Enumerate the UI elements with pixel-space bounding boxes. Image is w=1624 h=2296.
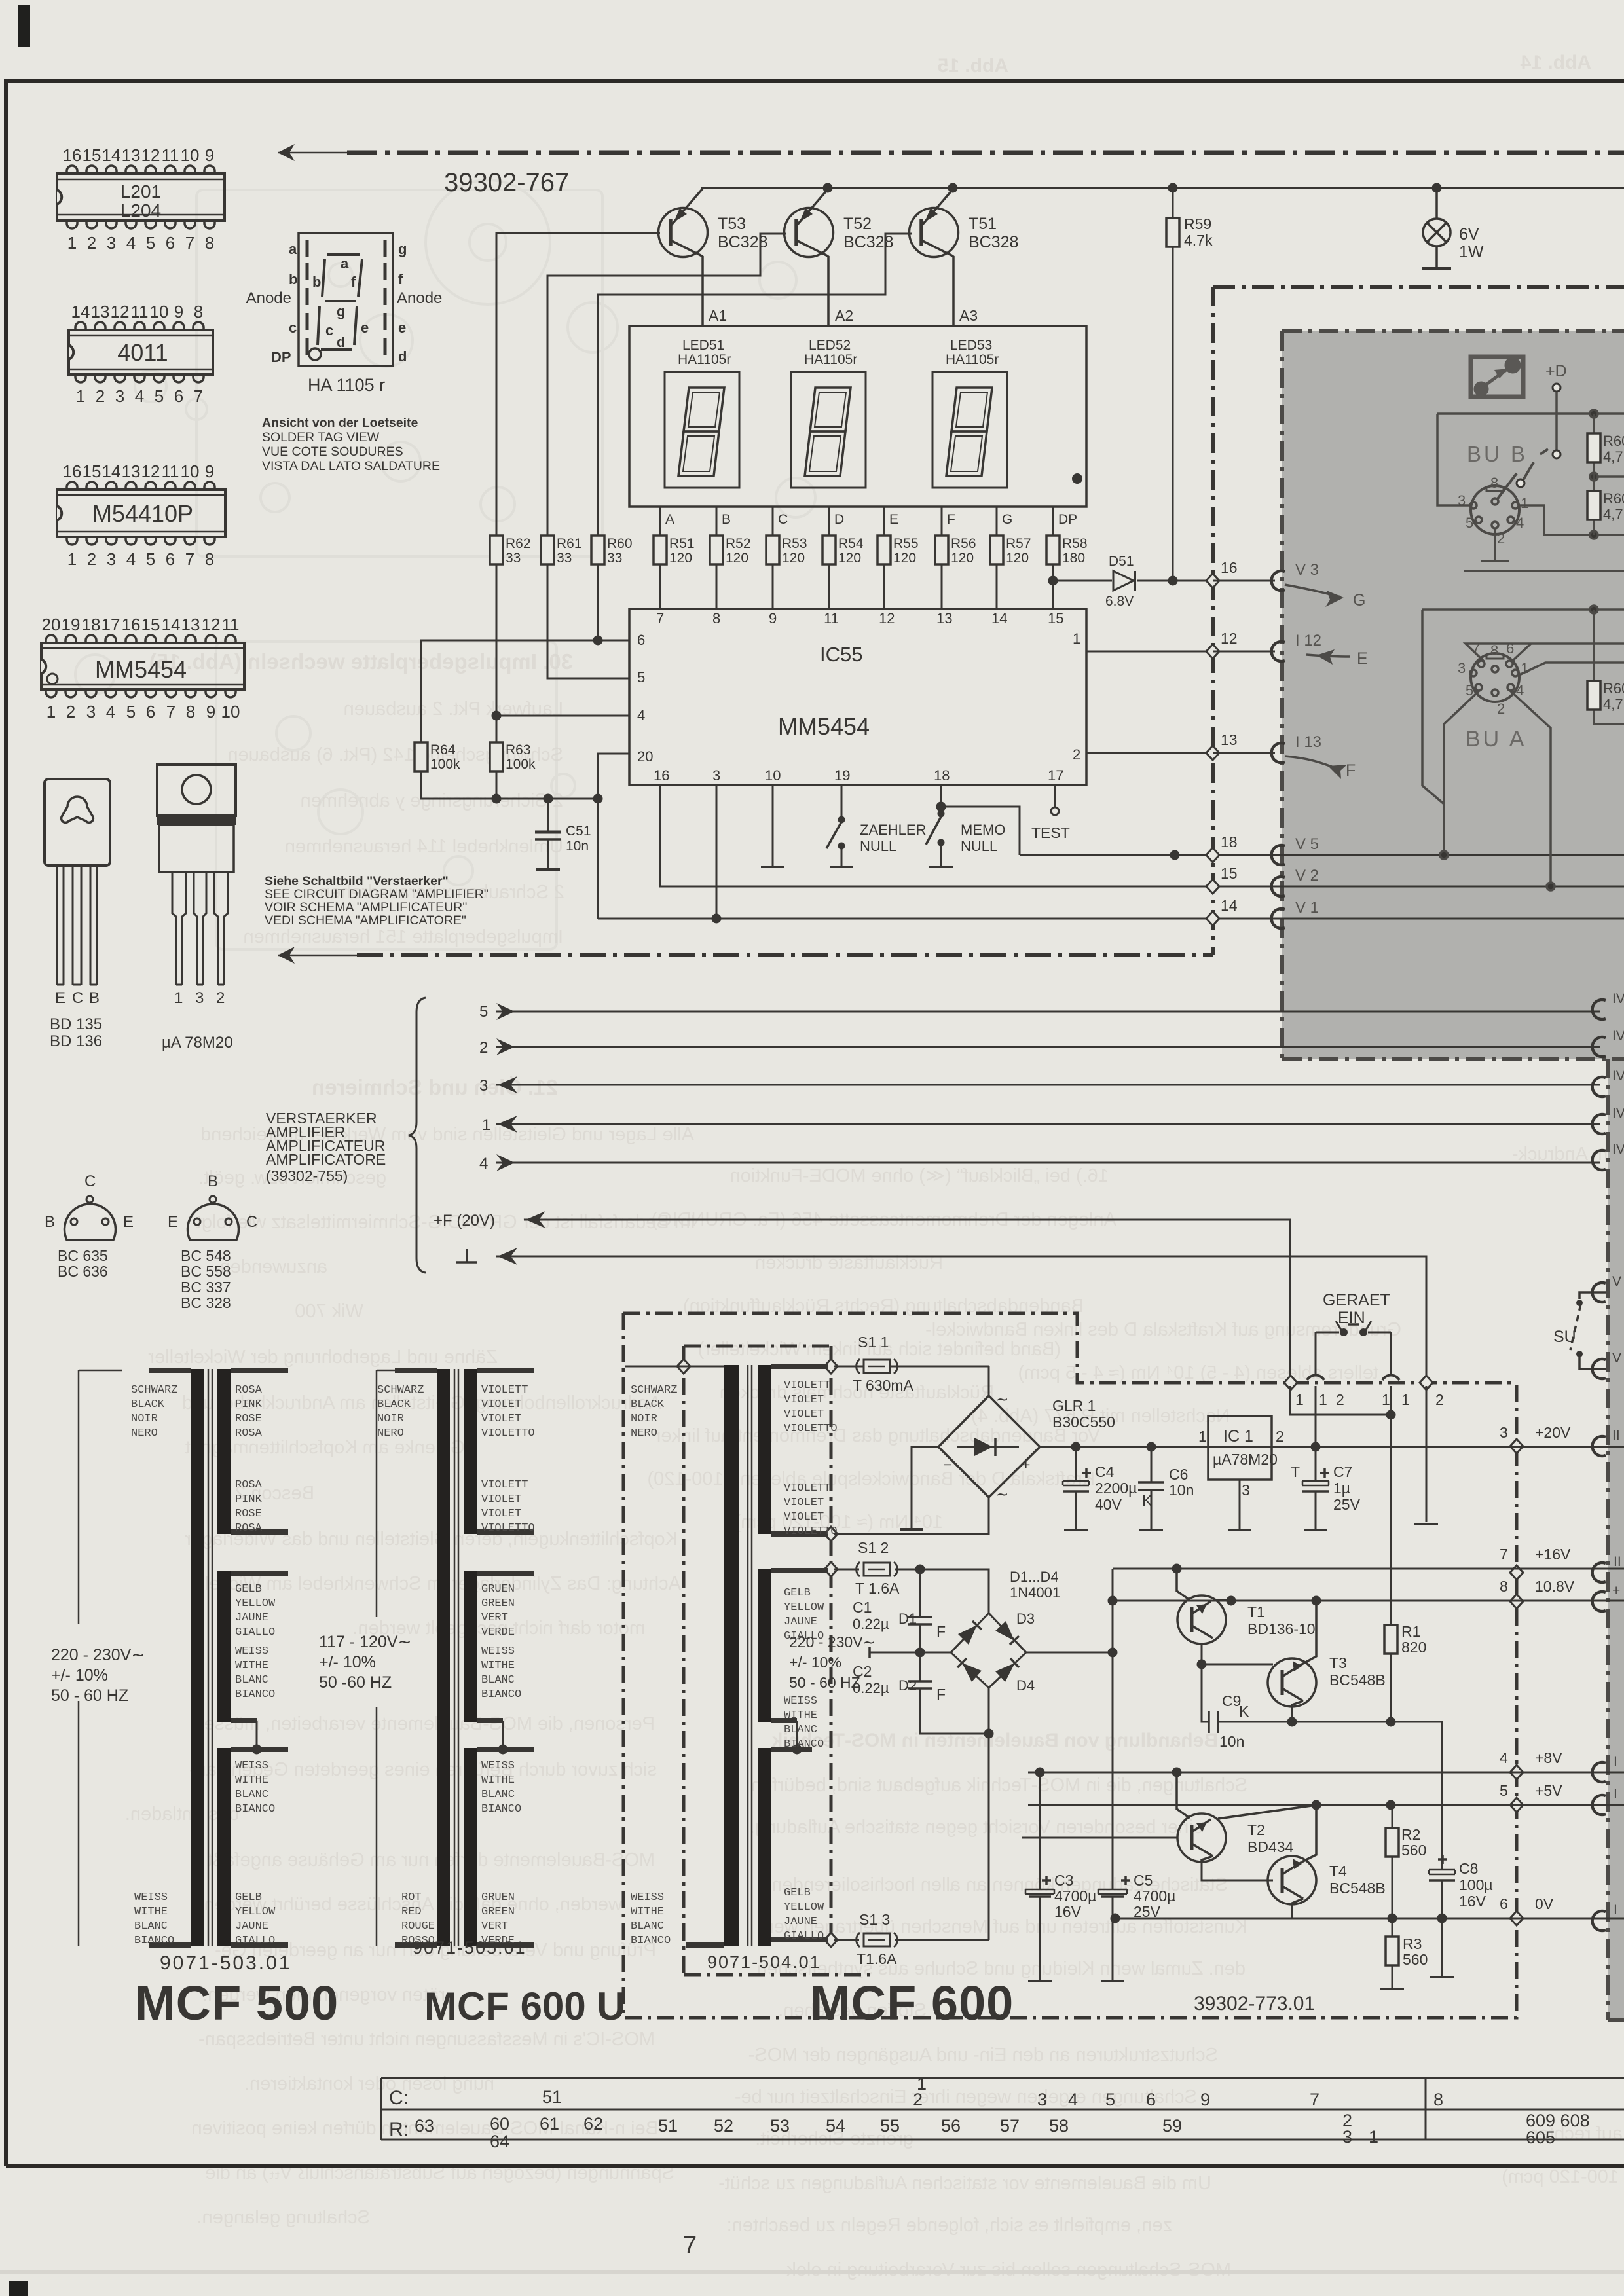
svg-text:S1 3: S1 3 (859, 1911, 890, 1928)
svg-text:VIOLETTO: VIOLETTO (784, 1423, 838, 1435)
svg-text:+16V: +16V (1535, 1546, 1571, 1563)
dash-dot boundary bottom y=1459 with left arrow (357, 953, 1213, 957)
svg-text:LED53: LED53 (950, 338, 992, 353)
svg-text:GRUEN: GRUEN (481, 1891, 515, 1904)
svg-text:2 Sicherungsringe y abnehmen: 2 Sicherungsringe y abnehmen (301, 790, 563, 811)
svg-text:ROSA: ROSA (235, 1479, 263, 1491)
transistor T52 BC328 (784, 189, 894, 326)
resistor R52 (710, 536, 723, 564)
wire colour labels (377, 1384, 535, 1947)
row +F 20V (524, 1220, 1290, 1377)
svg-text:WITHE: WITHE (481, 1660, 515, 1672)
capacitor C51 (547, 799, 549, 832)
+D contact and dashed switch to BU B (1517, 362, 1567, 487)
svg-text:IV: IV (1612, 991, 1624, 1006)
svg-text:220 - 230V∼: 220 - 230V∼ (51, 1646, 145, 1664)
IC pin2 row to boundary (13) (1086, 752, 1213, 754)
svg-text:VIOLETT: VIOLETT (481, 1384, 528, 1396)
mains input line (79, 1370, 122, 1946)
svg-text:9: 9 (206, 702, 215, 721)
svg-text:VOIR SCHEMA "AMPLIFICATEUR": VOIR SCHEMA "AMPLIFICATEUR" (265, 900, 467, 915)
svg-text:E: E (1357, 649, 1368, 668)
svg-text:MOS-Bauelemente dürfen nur am: MOS-Bauelemente dürfen nur am Gehäuse an… (208, 1850, 655, 1870)
row 2 (496, 1046, 1600, 1048)
dash-dot module boundary top (39302-767) (347, 151, 1624, 155)
svg-text:c: c (289, 319, 297, 336)
row 14 / V1 line (598, 918, 1624, 920)
svg-text:16.) bei „Blicklauf“ (≪) ohne: 16.) bei „Blicklauf“ (≪) ohne MODE-Funkt… (730, 1165, 1109, 1186)
svg-text:2: 2 (1497, 530, 1505, 547)
svg-text:7: 7 (185, 233, 194, 253)
+16V rail (1113, 1568, 1624, 1570)
svg-text:BD136-10: BD136-10 (1247, 1620, 1316, 1637)
svg-text:V: V (1612, 1351, 1621, 1366)
svg-text:C: C (72, 989, 83, 1007)
chassis line down to ground (1426, 1386, 1428, 1522)
svg-text:VIOLET: VIOLET (481, 1493, 521, 1506)
svg-text:10n: 10n (1219, 1733, 1244, 1750)
svg-text:BLANC: BLANC (631, 1920, 664, 1933)
svg-text:R58: R58 (1062, 536, 1088, 551)
svg-text:1: 1 (1521, 495, 1528, 511)
svg-text:GREEN: GREEN (481, 1597, 515, 1610)
arrows G E F on gray (1285, 585, 1368, 780)
svg-text:1: 1 (482, 1116, 490, 1134)
LED53 digit (932, 338, 1007, 488)
svg-text:12: 12 (141, 145, 160, 165)
C7 1u 25V (1291, 1447, 1361, 1530)
svg-text:BIANCO: BIANCO (481, 1688, 521, 1701)
wire T53 base from R62 (496, 233, 660, 536)
svg-text:GIALLO: GIALLO (235, 1935, 275, 1947)
R603 (1587, 680, 1624, 712)
svg-text:R60: R60 (1603, 433, 1624, 449)
svg-text:VIOLETT: VIOLETT (784, 1379, 830, 1392)
svg-text:20: 20 (42, 615, 61, 634)
svg-text:4: 4 (106, 702, 115, 721)
svg-text:18: 18 (1221, 833, 1238, 850)
svg-text:18: 18 (934, 767, 950, 784)
svg-text:BIANCO: BIANCO (784, 1738, 824, 1751)
svg-text:0.22µ: 0.22µ (853, 1680, 889, 1696)
cassette direction icon (1471, 357, 1523, 397)
dash-dot vertical boundary x=1852 (1211, 287, 1215, 955)
svg-text:14: 14 (102, 145, 121, 165)
lamp 6V 1W (1422, 188, 1484, 268)
svg-text:VIOLET: VIOLET (481, 1398, 521, 1411)
resistor R3 560 (1386, 1937, 1399, 1965)
svg-text:8: 8 (194, 302, 203, 321)
svg-text:BC 337: BC 337 (181, 1279, 231, 1296)
svg-text:54: 54 (826, 2116, 845, 2136)
resistor R61 (541, 536, 554, 564)
svg-text:BLANC: BLANC (235, 1674, 268, 1686)
svg-text:120: 120 (893, 551, 916, 566)
brace (409, 998, 426, 1273)
svg-text:13: 13 (936, 610, 952, 627)
svg-text:C: C (778, 512, 788, 527)
svg-text:2: 2 (87, 233, 96, 253)
module box dash-dot (684, 1346, 871, 1975)
diode D51 (1113, 571, 1134, 591)
TO-126 package BD135/BD136 (45, 779, 110, 985)
svg-text:T51: T51 (969, 215, 997, 233)
row 5 (out arrow) (496, 1011, 1600, 1013)
svg-text:VIOLETT: VIOLETT (481, 1479, 528, 1491)
svg-text:1: 1 (1382, 1391, 1390, 1408)
svg-text:im Andruck-: im Andruck- (1512, 1144, 1612, 1165)
svg-text:8: 8 (712, 610, 720, 627)
black square bottom-left (9, 2281, 28, 2296)
svg-text:BIANCO: BIANCO (235, 1688, 275, 1701)
svg-text:A1: A1 (709, 307, 727, 324)
svg-text:4: 4 (1500, 1749, 1508, 1766)
svg-text:8: 8 (205, 549, 214, 569)
svg-text:C:: C: (389, 2087, 409, 2109)
svg-text:VIOLET: VIOLET (784, 1394, 824, 1406)
svg-text:Anode: Anode (246, 289, 291, 307)
svg-text:3: 3 (1458, 660, 1466, 676)
svg-text:Vor Bandendabschaltung das Dre: Vor Bandendabschaltung das Drehmoment au… (654, 1425, 1100, 1446)
svg-text:120: 120 (726, 551, 748, 566)
svg-text:2: 2 (96, 386, 105, 406)
GERAET EIN switch (1295, 1291, 1410, 1446)
svg-text:D: D (834, 512, 844, 527)
svg-text:T1: T1 (1247, 1603, 1265, 1620)
svg-text:E: E (889, 512, 898, 527)
svg-text:I: I (1614, 1787, 1617, 1802)
Siehe Schaltbild caption (265, 874, 489, 928)
svg-text:+20V: +20V (1535, 1424, 1571, 1441)
svg-text:+/- 10%: +/- 10% (789, 1654, 841, 1671)
svg-text:VIOLETTO: VIOLETTO (481, 1427, 535, 1440)
svg-text:+: + (1612, 1583, 1620, 1598)
T3 BC548B (1202, 1601, 1386, 1722)
fuse S1 1 (834, 1334, 989, 1394)
svg-text:8: 8 (186, 702, 195, 721)
svg-text:IV: IV (1612, 1142, 1624, 1157)
svg-text:39302-773.01: 39302-773.01 (1194, 1993, 1315, 2014)
svg-text:GERAET: GERAET (1323, 1291, 1390, 1309)
ZAEHLER NULL switch (pin19) (841, 785, 843, 866)
svg-text:16: 16 (63, 145, 82, 165)
svg-text:Ansicht von der Loetseite: Ansicht von der Loetseite (262, 416, 418, 430)
svg-text:Personen, die MOS-Bauelemente: Personen, die MOS-Bauelemente verarbeite… (194, 1713, 655, 1734)
svg-text:40V: 40V (1095, 1496, 1122, 1513)
svg-text:4: 4 (1516, 515, 1524, 531)
svg-text:Schaltungen ergeben wegen ihre: Schaltungen ergeben wegen ihrer Einschal… (735, 2086, 1197, 2107)
svg-text:605: 605 (1526, 2128, 1555, 2147)
svg-text:16: 16 (63, 462, 82, 481)
svg-text:14: 14 (991, 610, 1007, 627)
svg-text:R51: R51 (669, 536, 695, 551)
primary winding bar (437, 1369, 450, 1946)
svg-text:R62: R62 (506, 536, 531, 551)
svg-text:R61: R61 (557, 536, 582, 551)
svg-text:55: 55 (880, 2116, 900, 2136)
svg-text:T: T (1291, 1463, 1300, 1480)
svg-text:Zähne und Lagerbohrung der Wic: Zähne und Lagerbohrung der Wickelteller (148, 1347, 498, 1368)
row 4 (496, 1162, 1600, 1164)
svg-text:12: 12 (1221, 630, 1238, 647)
svg-text:L204: L204 (120, 200, 161, 221)
row 1 (496, 1123, 1600, 1125)
svg-text:2: 2 (1276, 1428, 1284, 1445)
svg-text:+D: +D (1545, 362, 1567, 380)
svg-text:GREEN: GREEN (481, 1906, 515, 1918)
svg-text:Grundbremsung auf Kraftskala D: Grundbremsung auf Kraftskala D des linke… (925, 1319, 1401, 1340)
svg-text:E: E (55, 989, 65, 1007)
svg-text:WITHE: WITHE (631, 1906, 664, 1918)
svg-text:T52: T52 (843, 215, 872, 233)
svg-text:F: F (936, 1686, 946, 1703)
svg-text:6: 6 (1500, 1895, 1508, 1912)
svg-text:15: 15 (1048, 610, 1063, 627)
svg-text:B: B (45, 1213, 55, 1231)
svg-text:3: 3 (86, 702, 96, 721)
svg-text:Abb. 15: Abb. 15 (938, 55, 1008, 77)
C4 2200u 40V (1063, 1447, 1137, 1530)
svg-text:120: 120 (1006, 551, 1029, 566)
svg-text:NERO: NERO (131, 1427, 158, 1440)
svg-text:100-120 pcm): 100-120 pcm) (1502, 2166, 1619, 2187)
svg-text:4: 4 (1068, 2090, 1078, 2109)
svg-text:R54: R54 (838, 536, 864, 551)
svg-text:K: K (1142, 1492, 1153, 1509)
svg-text:12: 12 (141, 462, 160, 481)
svg-text:16V: 16V (1054, 1903, 1082, 1920)
svg-text:52: 52 (714, 2116, 733, 2136)
svg-text:BIANCO: BIANCO (631, 1935, 671, 1947)
mid AC tap row (868, 1647, 871, 1658)
svg-text:C: C (246, 1213, 257, 1231)
svg-text:K: K (1239, 1703, 1249, 1720)
svg-text:NULL: NULL (860, 838, 896, 854)
T4 BC548B (1202, 1805, 1386, 1918)
svg-text:VUE COTE SOUDURES: VUE COTE SOUDURES (262, 445, 403, 459)
D1..D4 small bridge (898, 1569, 1060, 1694)
svg-text:10n: 10n (1169, 1482, 1194, 1499)
svg-text:2: 2 (87, 549, 96, 569)
svg-text:R56: R56 (951, 536, 976, 551)
svg-text:15: 15 (1221, 865, 1238, 882)
R601 R602 4.7k (1587, 433, 1624, 522)
svg-text:HA1105r: HA1105r (804, 352, 857, 367)
svg-text:1: 1 (1073, 630, 1080, 647)
SU switch (1553, 1292, 1606, 1369)
svg-text:5: 5 (146, 233, 155, 253)
svg-text:d: d (337, 334, 345, 350)
primary winding bar (724, 1365, 739, 1946)
svg-text:R2: R2 (1401, 1826, 1420, 1843)
resistor R58 (1046, 536, 1060, 564)
svg-text:19: 19 (834, 767, 850, 784)
svg-text:12: 12 (111, 302, 130, 321)
left pin dashes (306, 240, 309, 355)
svg-text:21. Ölen und Schmieren: 21. Ölen und Schmieren (312, 1075, 558, 1099)
svg-text:LED51: LED51 (682, 338, 724, 353)
svg-text:58: 58 (1049, 2116, 1069, 2136)
0V rail (1115, 1918, 1624, 1920)
svg-text:100µ: 100µ (1459, 1876, 1493, 1893)
TEST point (pin17) (1054, 785, 1056, 807)
svg-text:WITHE: WITHE (235, 1660, 268, 1672)
svg-text:VIOLETTO: VIOLETTO (481, 1522, 535, 1535)
svg-text:BD 136: BD 136 (50, 1032, 102, 1050)
svg-text:3: 3 (107, 549, 116, 569)
svg-text:820: 820 (1401, 1639, 1426, 1656)
svg-text:+: + (1022, 1456, 1030, 1473)
IC pinout 4011 (DIP14) (69, 302, 213, 406)
svg-text:BLANC: BLANC (784, 1724, 817, 1736)
arrow left end of boundary (278, 152, 350, 154)
svg-text:51: 51 (542, 2087, 562, 2107)
black corner mark top-left (18, 5, 30, 47)
C8/R3 lower stubs (1441, 1918, 1443, 1976)
core lines (454, 1369, 458, 1946)
svg-text:ROSE: ROSE (235, 1413, 262, 1425)
svg-text:BC 328: BC 328 (181, 1294, 231, 1311)
svg-text:C7: C7 (1333, 1463, 1352, 1480)
svg-text:+5V: +5V (1535, 1782, 1562, 1799)
svg-text:b: b (289, 271, 297, 287)
svg-text:Siehe Schaltbild "Verstaerker": Siehe Schaltbild "Verstaerker" (265, 874, 449, 888)
svg-text:56: 56 (941, 2116, 961, 2136)
svg-text:R55: R55 (893, 536, 919, 551)
DP circle (309, 348, 321, 360)
svg-text:BC548B: BC548B (1329, 1880, 1386, 1897)
gray strip B along right edge (1608, 1059, 1624, 2020)
svg-text:MCF 600: MCF 600 (810, 1976, 1014, 2030)
svg-text:10: 10 (181, 462, 200, 481)
bottom page shadow (0, 2270, 1624, 2274)
svg-text:4700µ: 4700µ (1134, 1887, 1175, 1904)
svg-text:0.22µ: 0.22µ (853, 1616, 889, 1632)
svg-text:NOIR: NOIR (131, 1413, 158, 1425)
svg-text:R3: R3 (1403, 1935, 1422, 1952)
wire colour labels (631, 1379, 838, 1947)
svg-text:+F (20V): +F (20V) (434, 1212, 495, 1230)
svg-text:WITHE: WITHE (235, 1774, 268, 1787)
svg-text:4: 4 (135, 386, 144, 406)
svg-text:5: 5 (1466, 515, 1473, 531)
svg-text:6: 6 (166, 233, 175, 253)
svg-text:F: F (947, 512, 955, 527)
svg-text:15: 15 (83, 462, 101, 481)
svg-text:IC 1: IC 1 (1223, 1427, 1253, 1446)
svg-text:T2: T2 (1247, 1821, 1265, 1838)
svg-text:3: 3 (1037, 2090, 1047, 2109)
svg-text:1: 1 (76, 386, 85, 406)
svg-text:a: a (341, 255, 349, 272)
svg-text:16: 16 (1221, 559, 1238, 576)
svg-text:9: 9 (205, 462, 214, 481)
svg-text:33: 33 (607, 551, 622, 566)
svg-text:Umlenkhebel 114 herausnehmen: Umlenkhebel 114 herausnehmen (285, 836, 563, 857)
svg-text:117 - 120V∼: 117 - 120V∼ (319, 1633, 411, 1651)
resistor R51 (654, 536, 667, 564)
svg-text:BC328: BC328 (843, 233, 893, 251)
svg-text:5: 5 (637, 669, 645, 685)
wire T51 base from R60 (598, 234, 912, 536)
svg-text:GELB: GELB (784, 1587, 811, 1599)
svg-text:14: 14 (102, 462, 121, 481)
svg-text:13: 13 (122, 145, 141, 165)
winding stubs (686, 1942, 724, 1948)
svg-text:I 13: I 13 (1295, 733, 1321, 751)
IC pinout MM5454 (DIP20) (41, 615, 244, 721)
svg-text:f: f (351, 274, 356, 290)
svg-text:BU A: BU A (1466, 727, 1526, 752)
svg-text:2200µ: 2200µ (1095, 1480, 1137, 1497)
svg-text:1: 1 (67, 233, 77, 253)
svg-text:6V: 6V (1459, 225, 1479, 244)
svg-text:µA78M20: µA78M20 (1213, 1451, 1278, 1468)
resistor R62 (490, 536, 503, 564)
resistor R60 (591, 536, 604, 564)
svg-text:MM5454: MM5454 (95, 656, 187, 683)
svg-text:WEISS: WEISS (481, 1645, 515, 1658)
+5V rail (1028, 1804, 1624, 1806)
bridge rectifier GLR1 B30C550 (938, 1366, 1115, 1503)
svg-text:Um die Bauelemente vor statisc: Um die Bauelemente vor statischen Auflad… (718, 2173, 1211, 2194)
svg-text:F: F (936, 1623, 946, 1640)
winding stubs (395, 1370, 437, 1945)
BU B DIN connector (1458, 442, 1528, 561)
right pin dashes (384, 240, 387, 355)
svg-text:1: 1 (1319, 1391, 1327, 1408)
svg-text:JAUNE: JAUNE (784, 1616, 817, 1628)
+V top rail (701, 187, 1624, 189)
svg-text:GELB: GELB (235, 1583, 262, 1595)
svg-text:µA 78M20: µA 78M20 (162, 1034, 233, 1051)
svg-text:5: 5 (479, 1003, 488, 1021)
svg-text:16V: 16V (1459, 1893, 1486, 1910)
svg-text:HA1105r: HA1105r (678, 352, 731, 367)
svg-text:6: 6 (1146, 2090, 1156, 2109)
svg-text:30. Impulsgeberplatte wechseln: 30. Impulsgeberplatte wechseln (Abb. 15) (149, 649, 573, 674)
fuse S1 2 (834, 1539, 989, 1613)
svg-text:1W: 1W (1459, 243, 1484, 261)
primary winding bar (191, 1369, 204, 1946)
transistor T53 BC328 (659, 189, 768, 326)
svg-text:11: 11 (222, 615, 240, 634)
svg-text:10: 10 (150, 302, 169, 321)
svg-text:VIOLET: VIOLET (481, 1508, 521, 1520)
svg-text:A2: A2 (835, 307, 853, 324)
LED display board box (629, 326, 1086, 507)
svg-text:100k: 100k (506, 757, 536, 772)
svg-text:4700µ: 4700µ (1054, 1887, 1096, 1904)
svg-text:560: 560 (1403, 1951, 1428, 1968)
svg-text:9: 9 (205, 145, 214, 165)
svg-text:18: 18 (82, 615, 101, 634)
svg-text:220 - 230V∼: 220 - 230V∼ (789, 1633, 876, 1650)
svg-text:B: B (89, 989, 100, 1007)
row 15 / V2 line from pin16 (660, 785, 1624, 886)
svg-text:33: 33 (506, 551, 521, 566)
gray area A (adjacent page scan region) (1282, 331, 1624, 1059)
svg-text:BD434: BD434 (1247, 1838, 1294, 1855)
svg-text:∼: ∼ (996, 1485, 1008, 1503)
svg-text:BLANC: BLANC (481, 1789, 515, 1801)
segment pin stubs + labels (660, 507, 1053, 536)
svg-text:6: 6 (146, 702, 155, 721)
IC1 uA78M20 (1198, 1416, 1284, 1530)
svg-text:Schaltungen, die in MOS-Techni: Schaltungen, die in MOS-Technik aufgebau… (751, 1775, 1247, 1796)
svg-text:∼: ∼ (996, 1391, 1008, 1408)
svg-text:50 - 60 HZ: 50 - 60 HZ (789, 1674, 860, 1691)
